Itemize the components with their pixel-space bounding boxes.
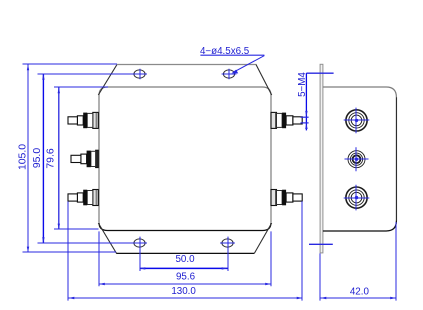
svg-text:42.0: 42.0 [350,286,370,297]
svg-text:79.6: 79.6 [45,148,56,168]
svg-text:5−M4: 5−M4 [297,72,308,97]
svg-text:130.0: 130.0 [171,286,196,297]
svg-text:50.0: 50.0 [175,254,195,265]
svg-text:95.6: 95.6 [176,272,196,283]
svg-text:95.0: 95.0 [32,148,43,168]
svg-text:105.0: 105.0 [18,144,29,170]
